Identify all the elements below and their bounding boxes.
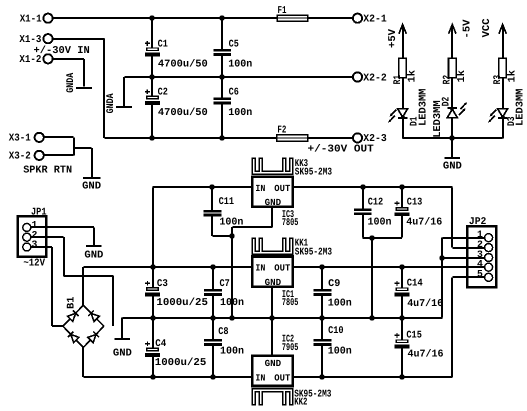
pad X2-3 bbox=[353, 133, 362, 142]
junction IN row / C3 bbox=[150, 264, 155, 269]
voltage regulator IC1 7805 bbox=[252, 257, 292, 287]
svg-text:LED3MM: LED3MM bbox=[514, 89, 526, 126]
fuse F2 bbox=[277, 135, 308, 141]
svg-text:100n: 100n bbox=[228, 107, 252, 119]
junction row C / C2 bbox=[149, 135, 154, 140]
svg-text:5: 5 bbox=[477, 269, 483, 280]
ground GNDA (input) bbox=[76, 87, 92, 89]
svg-text:IN: IN bbox=[255, 263, 265, 274]
pad X1-1 bbox=[43, 14, 52, 23]
wire JP1-2 to B1 right bbox=[31, 236, 64, 238]
svg-text:4u7/16: 4u7/16 bbox=[407, 298, 443, 310]
svg-text:C10: C10 bbox=[328, 326, 344, 337]
wire F1 to X2-1 bbox=[308, 17, 353, 19]
junction IC1 out / C9 bbox=[319, 264, 324, 269]
fuse F1 bbox=[277, 15, 308, 21]
ground GND (spkr) bbox=[83, 177, 100, 179]
svg-text:GND: GND bbox=[265, 277, 282, 288]
wire JP1-3 to B1 left bbox=[31, 246, 52, 248]
connector JP2 bbox=[467, 226, 496, 287]
wire mid rail (GND) bbox=[122, 317, 442, 319]
wire IC3 OUT row bbox=[293, 186, 453, 188]
svg-text:+/-30V OUT: +/-30V OUT bbox=[308, 143, 374, 155]
svg-text:C5: C5 bbox=[229, 39, 239, 50]
voltage regulator IC2 heatsink KK2 bbox=[252, 389, 293, 405]
svg-text:OUT: OUT bbox=[274, 183, 290, 194]
svg-text:JP1: JP1 bbox=[31, 207, 47, 218]
svg-text:100n: 100n bbox=[368, 217, 392, 229]
svg-text:X2-2: X2-2 bbox=[363, 72, 387, 84]
LED D2 bbox=[447, 109, 457, 117]
svg-text:C13: C13 bbox=[407, 197, 423, 208]
svg-text:SPKR RTN: SPKR RTN bbox=[23, 164, 72, 176]
wire R2 to D2 bbox=[451, 78, 453, 108]
svg-text:GND: GND bbox=[113, 348, 132, 360]
svg-text:GND: GND bbox=[84, 249, 103, 261]
capacitor C9 bbox=[321, 267, 323, 289]
wire IC2 OUT up to JP2 pin5 bbox=[451, 277, 453, 377]
junction mid rail / IC3 gnd branch bbox=[229, 315, 234, 320]
wire F2 to X2-3 bbox=[308, 137, 353, 139]
svg-text:C14: C14 bbox=[407, 279, 423, 290]
svg-text:C8: C8 bbox=[218, 327, 228, 338]
junction mid rail / C12-C13 branch bbox=[369, 315, 374, 320]
pad X2-1 bbox=[353, 14, 362, 23]
voltage regulator IC3 7805 bbox=[252, 177, 292, 207]
LED D1 bbox=[398, 109, 408, 117]
junction bottom rail / C8 bbox=[210, 374, 215, 379]
svg-text:JP2: JP2 bbox=[469, 217, 487, 228]
junction IC3 gnd / C11 bbox=[229, 233, 234, 238]
wire X1-2 to GNDA bbox=[53, 58, 84, 60]
junction row B / C1-C2 bbox=[149, 74, 154, 79]
svg-text:LED3MM: LED3MM bbox=[432, 100, 444, 137]
svg-text:100n: 100n bbox=[228, 58, 252, 70]
svg-text:X3-2: X3-2 bbox=[9, 151, 31, 163]
junction IC2 out / C15 bbox=[399, 374, 404, 379]
svg-text:1k: 1k bbox=[456, 70, 468, 82]
capacitor C12 bbox=[362, 187, 364, 208]
voltage regulator IC3 heatsink KK3 bbox=[252, 158, 293, 174]
svg-text:C1: C1 bbox=[158, 39, 168, 50]
junction GND riser / JP2 pin3 bbox=[439, 255, 444, 260]
svg-text:SK95-2M3: SK95-2M3 bbox=[295, 247, 332, 258]
bridge rectifier B1 bbox=[63, 305, 83, 326]
svg-text:100n: 100n bbox=[328, 346, 352, 358]
svg-text:C11: C11 bbox=[219, 197, 235, 208]
junction C12-C13 gnd branch bbox=[369, 235, 374, 240]
svg-text:OUT: OUT bbox=[274, 372, 290, 383]
ground GND (JP1) bbox=[86, 245, 102, 247]
capacitor C13 bbox=[401, 187, 403, 207]
junction IC3 out / C12 bbox=[360, 184, 365, 189]
voltage regulator IC1 heatsink KK1 bbox=[252, 238, 293, 254]
svg-text:GND: GND bbox=[82, 181, 101, 193]
svg-text:4u7/16: 4u7/16 bbox=[406, 217, 442, 229]
junction row A / C1 bbox=[149, 15, 154, 20]
resistor R1 bbox=[399, 58, 407, 78]
pad JP1-3 bbox=[23, 243, 31, 251]
svg-text:7805: 7805 bbox=[282, 218, 299, 229]
svg-text:X1-2: X1-2 bbox=[19, 54, 41, 66]
junction IC1 out / C14 bbox=[399, 264, 404, 269]
svg-text:1k: 1k bbox=[406, 70, 418, 82]
connector JP1 bbox=[18, 216, 47, 257]
junction LED rail / GND bbox=[449, 135, 454, 140]
pad JP2-1 bbox=[485, 234, 493, 242]
svg-text:X1-1: X1-1 bbox=[20, 13, 42, 25]
svg-text:C7: C7 bbox=[220, 279, 230, 290]
resistor R2 bbox=[449, 58, 457, 78]
junction mid rail / C14-C15 bbox=[399, 315, 404, 320]
wire row C (negative rail) bbox=[105, 137, 277, 139]
supply arrow -5V bbox=[451, 25, 453, 58]
svg-text:KK2: KK2 bbox=[294, 398, 307, 409]
junction IN row / C7 bbox=[210, 264, 215, 269]
svg-text:OUT: OUT bbox=[274, 263, 290, 274]
svg-text:+/-30V IN: +/-30V IN bbox=[34, 45, 90, 57]
wire IC2 GND to mid rail bbox=[271, 318, 273, 356]
svg-text:C12: C12 bbox=[368, 197, 384, 208]
svg-text:IN: IN bbox=[255, 183, 265, 194]
svg-text:X3-1: X3-1 bbox=[9, 133, 31, 145]
pad X1-2 bbox=[43, 54, 52, 63]
wire B1 plus to IN row bbox=[82, 267, 84, 305]
pad JP2-3 bbox=[485, 254, 493, 262]
junction row B / C5-C6 bbox=[219, 74, 224, 79]
resistor R3 bbox=[499, 58, 507, 78]
wire C12-C13 gnd to mid rail bbox=[371, 238, 373, 318]
svg-text:C4: C4 bbox=[155, 339, 166, 350]
ground GNDA (mid) bbox=[116, 106, 132, 108]
svg-text:4700u/50: 4700u/50 bbox=[158, 107, 208, 119]
ground GND (mid rail) bbox=[115, 338, 131, 340]
supply arrow +5V bbox=[402, 25, 404, 58]
svg-text:IN: IN bbox=[255, 372, 265, 383]
svg-text:GND: GND bbox=[443, 161, 462, 173]
pad JP2-2 bbox=[485, 244, 493, 252]
wire LED ground rail bbox=[403, 137, 503, 139]
capacitor C7 bbox=[212, 267, 214, 289]
capacitor C11 bbox=[211, 187, 213, 209]
wire JP1-1 to GND bbox=[31, 226, 94, 228]
svg-text:X2-1: X2-1 bbox=[363, 14, 387, 26]
junction IC2 out / C10 bbox=[319, 374, 324, 379]
ground GND (LED rail) bbox=[445, 157, 461, 159]
svg-text:1000u/25: 1000u/25 bbox=[156, 297, 208, 309]
svg-text:~12V: ~12V bbox=[23, 258, 45, 270]
pad X2-2 bbox=[353, 72, 362, 81]
svg-text:4u7/16: 4u7/16 bbox=[408, 348, 444, 360]
wire IC3 GND to mid rail bbox=[271, 207, 273, 227]
svg-text:LED3MM: LED3MM bbox=[418, 89, 430, 126]
svg-text:C2: C2 bbox=[158, 88, 168, 99]
svg-text:GNDA: GNDA bbox=[106, 93, 117, 114]
wire IC2 OUT row bbox=[293, 376, 453, 378]
voltage regulator IC2 7905 bbox=[252, 356, 292, 386]
capacitor C15 bbox=[401, 318, 403, 340]
capacitor C2 bbox=[151, 77, 153, 96]
junction mid rail / C3-C4 bbox=[150, 315, 155, 320]
pad JP1-1 bbox=[23, 223, 31, 231]
svg-text:4700u/50: 4700u/50 bbox=[158, 58, 208, 70]
svg-text:C3: C3 bbox=[157, 279, 168, 290]
pad JP2-5 bbox=[485, 273, 493, 281]
svg-text:100n: 100n bbox=[328, 298, 352, 310]
wire B1 minus to IC2 IN row bbox=[82, 348, 84, 378]
svg-text:C15: C15 bbox=[406, 331, 422, 342]
wire to GNDA 2 bbox=[123, 77, 125, 106]
svg-text:C6: C6 bbox=[229, 88, 239, 99]
svg-text:3: 3 bbox=[32, 239, 38, 250]
svg-text:7805: 7805 bbox=[282, 298, 299, 309]
supply arrow VCC bbox=[502, 25, 504, 58]
pad X3-1 bbox=[35, 133, 44, 142]
LED D3 bbox=[498, 109, 508, 117]
capacitor C5 bbox=[221, 18, 223, 49]
capacitor C14 bbox=[401, 267, 403, 287]
svg-text:+5V: +5V bbox=[387, 28, 399, 48]
capacitor C10 bbox=[321, 318, 323, 339]
junction bottom rail / C4 bbox=[150, 374, 155, 379]
wire row B (mid rail of input caps) bbox=[125, 76, 353, 78]
capacitor C6 bbox=[221, 77, 223, 97]
wires X3 to GND bbox=[44, 136, 74, 138]
wire D1 to rail bbox=[402, 118, 404, 138]
capacitor C3 bbox=[152, 267, 154, 287]
svg-text:1000u/25: 1000u/25 bbox=[155, 357, 207, 369]
svg-text:GND: GND bbox=[265, 358, 282, 369]
junction IC3 out / C13 bbox=[399, 184, 404, 189]
junction mid rail / C9-C10 bbox=[319, 315, 324, 320]
svg-text:100n: 100n bbox=[220, 346, 244, 358]
capacitor C8 bbox=[212, 318, 214, 339]
svg-text:7905: 7905 bbox=[282, 343, 299, 354]
svg-text:B1: B1 bbox=[67, 297, 78, 310]
wire D2 to rail bbox=[451, 118, 453, 139]
capacitor C1 bbox=[151, 18, 153, 47]
svg-text:F2: F2 bbox=[277, 125, 286, 137]
wire R1 to D1 bbox=[402, 78, 404, 109]
wire X1-1 to F1 (row A) bbox=[53, 17, 277, 19]
pad JP1-2 bbox=[23, 233, 31, 241]
wire IC1 OUT row to JP2 pin4 bbox=[293, 266, 485, 268]
svg-text:F1: F1 bbox=[278, 5, 287, 17]
junction mid rail / C7-C8 bbox=[210, 315, 215, 320]
svg-text:SK95-2M3: SK95-2M3 bbox=[295, 167, 332, 178]
pad X1-3 bbox=[43, 34, 52, 43]
capacitor C4 bbox=[152, 318, 154, 348]
svg-text:1k: 1k bbox=[506, 70, 518, 82]
wire X1-3 to negative rail bbox=[53, 38, 105, 40]
wire D3 to rail bbox=[502, 118, 504, 138]
junction row A / C5 bbox=[219, 15, 224, 20]
wire mid rail up to JP2 pins 1,3 bbox=[441, 238, 443, 318]
junction IC3 row / C11 bbox=[209, 184, 214, 189]
svg-text:C9: C9 bbox=[328, 279, 340, 290]
junction mid rail / IC1-IC2 gnd bbox=[269, 315, 274, 320]
pad JP2-4 bbox=[485, 263, 493, 271]
svg-text:-5V: -5V bbox=[462, 19, 474, 39]
pad X3-2 bbox=[35, 151, 44, 160]
svg-text:GND: GND bbox=[265, 197, 282, 208]
wire IC3 OUT down to JP2 pin2 bbox=[451, 187, 453, 247]
svg-text:VCC: VCC bbox=[481, 18, 493, 37]
wire R3 to D3 bbox=[502, 78, 504, 109]
wire IC1 GND to mid rail bbox=[271, 287, 273, 318]
wire mid rail to GND symbol bbox=[121, 318, 123, 339]
wire riser to IC3 IN row bbox=[152, 187, 154, 267]
svg-text:GNDA: GNDA bbox=[66, 72, 77, 93]
junction row C / C6 bbox=[219, 135, 224, 140]
